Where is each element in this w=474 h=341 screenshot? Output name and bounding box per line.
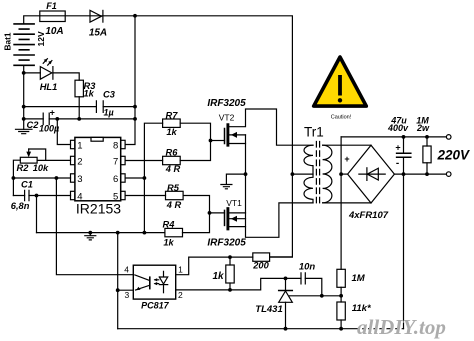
svg-text:1k: 1k (166, 127, 177, 137)
svg-text:1k: 1k (163, 238, 174, 248)
svg-text:IRF3205: IRF3205 (207, 98, 246, 109)
svg-text:2: 2 (77, 156, 82, 167)
svg-text:15A: 15A (89, 28, 107, 39)
svg-text:+: + (395, 143, 400, 153)
svg-text:220V: 220V (437, 148, 471, 163)
svg-text:VT2: VT2 (219, 113, 235, 123)
svg-text:C2: C2 (27, 120, 40, 130)
svg-text:IRF3205: IRF3205 (207, 237, 246, 248)
svg-text:6: 6 (113, 174, 118, 185)
svg-text:Bat1: Bat1 (3, 32, 13, 50)
svg-text:1k: 1k (84, 88, 95, 98)
svg-text:3: 3 (125, 290, 130, 300)
svg-text:8: 8 (113, 140, 118, 151)
svg-text:PC817: PC817 (141, 301, 170, 311)
svg-text:10A: 10A (45, 26, 63, 37)
svg-text:Tr1: Tr1 (304, 125, 324, 140)
svg-text:1µ: 1µ (104, 108, 114, 118)
svg-text:F1: F1 (46, 1, 57, 11)
svg-text:11k*: 11k* (352, 303, 372, 314)
svg-text:R5: R5 (167, 183, 180, 193)
svg-text:3: 3 (77, 174, 82, 185)
svg-text:C1: C1 (21, 180, 33, 190)
svg-text:4xFR107: 4xFR107 (348, 210, 389, 221)
svg-text:R2: R2 (17, 163, 30, 173)
svg-text:5: 5 (113, 191, 118, 202)
svg-text:Caution!: Caution! (331, 115, 352, 121)
svg-text:TL431: TL431 (255, 304, 282, 315)
svg-text:VT1: VT1 (226, 198, 242, 208)
svg-text:2w: 2w (416, 123, 430, 133)
svg-text:4: 4 (77, 191, 82, 202)
svg-text:1: 1 (178, 264, 183, 274)
svg-text:+: + (344, 154, 349, 164)
svg-text:2: 2 (178, 290, 183, 300)
svg-text:4: 4 (124, 264, 129, 274)
svg-text:6,8n: 6,8n (11, 201, 30, 211)
svg-text:1: 1 (77, 140, 82, 151)
svg-text:R7: R7 (166, 111, 179, 121)
svg-text:10n: 10n (299, 261, 316, 272)
svg-text:4 R: 4 R (166, 200, 182, 210)
svg-text:+: + (50, 108, 55, 118)
svg-text:IR2153: IR2153 (76, 201, 121, 217)
svg-text:200: 200 (252, 260, 269, 270)
svg-text:10k: 10k (33, 163, 49, 173)
svg-text:4 R: 4 R (165, 164, 181, 174)
svg-text:7: 7 (113, 156, 118, 167)
svg-text:C3: C3 (103, 90, 116, 100)
svg-text:R6: R6 (166, 148, 179, 158)
svg-text:-: - (396, 158, 399, 169)
svg-text:HL1: HL1 (40, 82, 58, 92)
svg-text:1M: 1M (352, 273, 366, 284)
svg-text:100µ: 100µ (39, 123, 59, 133)
svg-text:R4: R4 (163, 220, 176, 230)
svg-text:1k: 1k (212, 271, 224, 282)
svg-text:allDIY.top: allDIY.top (357, 315, 446, 339)
svg-text:400v: 400v (387, 123, 409, 133)
